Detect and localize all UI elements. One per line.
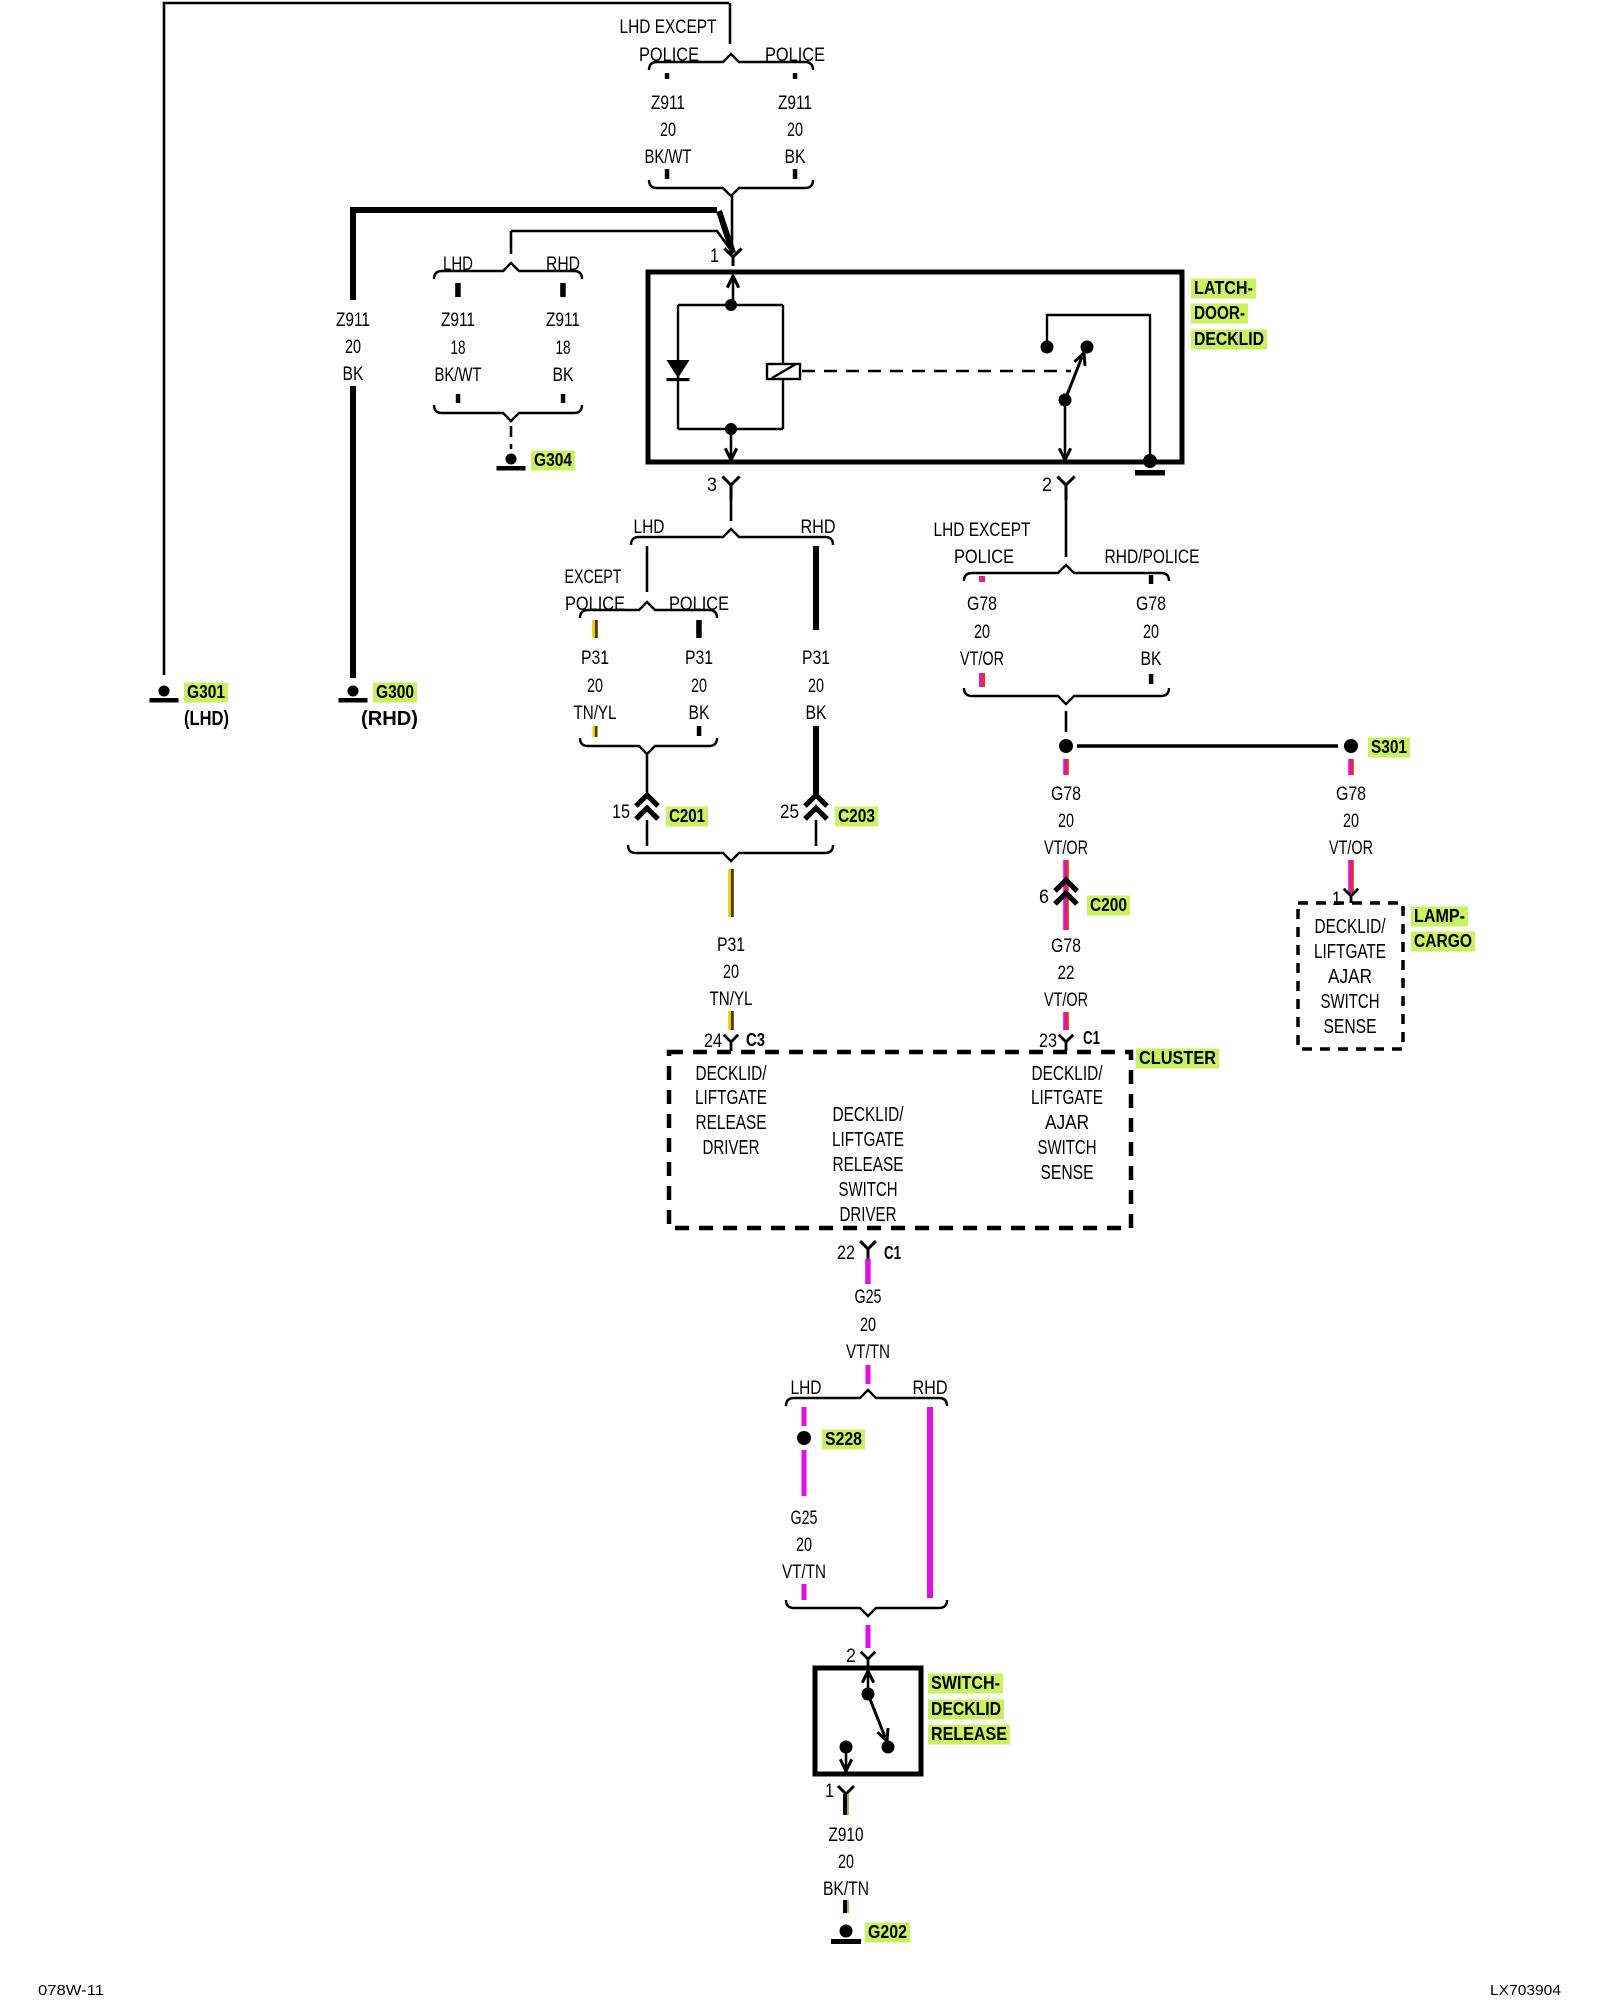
svg-text:SWITCH: SWITCH [1038,1137,1097,1159]
svg-text:LHD: LHD [634,517,665,538]
svg-text:VT/OR: VT/OR [1044,838,1088,859]
wire stub BK bottom [697,726,702,736]
svg-text:BK/WT: BK/WT [645,147,692,168]
wire LHD feed from top to ground G301 [164,3,729,675]
svg-text:DRIVER: DRIVER [840,1204,897,1226]
wire to pin 3 with arrow down [730,429,733,459]
wire LHD branch [646,546,649,592]
svg-text:LHD EXCEPT: LHD EXCEPT [934,520,1031,541]
pin 2 connector [1057,476,1074,500]
svg-text:POLICE: POLICE [669,594,729,615]
wire stub BK bottom right [1149,674,1154,684]
svg-text:G78: G78 [1051,936,1081,957]
pin 3 connector [722,476,739,500]
svg-text:15: 15 [612,802,630,823]
wire stub BK/WT bottom [665,169,670,179]
brace merge Z911-20 [649,180,813,196]
switch arm with arrow [868,1694,885,1737]
svg-text:20: 20 [1058,811,1074,832]
svg-text:DECKLID/: DECKLID/ [1315,916,1386,938]
svg-text:1: 1 [825,1781,834,1802]
junction node top [725,299,737,311]
svg-text:Z911: Z911 [651,93,685,114]
wire stub VT/TN LHD [802,1407,807,1426]
wire RHD P31 thick lower [813,726,819,798]
svg-text:LAMP-: LAMP- [1414,906,1465,926]
wire drop to Z911 split [729,3,732,44]
wire VT/OR to C200 [1063,860,1066,930]
svg-text:20: 20 [723,962,739,983]
svg-text:Z910: Z910 [829,1825,864,1846]
svg-text:RELEASE: RELEASE [931,1724,1007,1744]
svg-text:(LHD): (LHD) [184,708,229,730]
svg-text:C1: C1 [884,1243,901,1263]
pin 2 connector switch [861,1652,875,1668]
label CLUSTER [1136,1049,1219,1069]
svg-text:SWITCH: SWITCH [1321,991,1380,1013]
pin 1 connector [724,248,741,266]
connector C200 [1055,880,1077,904]
wire stub BK top [696,620,702,638]
svg-text:S228: S228 [825,1429,862,1449]
svg-text:Z911: Z911 [336,310,370,331]
wire to pin1 with arrow down [845,1747,848,1770]
wire stub BK bottom [561,394,566,403]
wire RHD P31 thick upper [813,546,819,630]
svg-text:1: 1 [1332,889,1341,910]
svg-text:(RHD): (RHD) [361,708,418,730]
svg-text:VT/OR: VT/OR [1329,838,1373,859]
svg-text:Z911: Z911 [546,310,580,331]
svg-text:LIFTGATE: LIFTGATE [695,1087,767,1109]
svg-text:20: 20 [860,1315,876,1336]
wire P31 TN/YL merged [728,869,731,917]
switch common node [1059,394,1072,407]
brace split G78 [964,565,1169,581]
brace split LHD/RHD [631,529,833,545]
svg-text:LATCH-: LATCH- [1194,278,1253,298]
svg-text:SWITCH: SWITCH [839,1179,898,1201]
svg-text:CLUSTER: CLUSTER [1139,1048,1216,1068]
svg-text:20: 20 [838,1852,854,1873]
svg-text:EXCEPT: EXCEPT [565,567,622,588]
svg-text:RELEASE: RELEASE [833,1154,904,1176]
svg-text:VT/OR: VT/OR [960,649,1004,670]
brace merge C201/C203 [628,845,833,861]
svg-text:2: 2 [846,1646,856,1667]
wire into switch with arrow up [867,1672,870,1694]
svg-text:RHD: RHD [913,1378,948,1399]
svg-text:2: 2 [1042,475,1052,496]
svg-text:G300: G300 [376,682,414,702]
label S301 [1368,738,1410,758]
svg-text:20: 20 [808,676,824,697]
wire stub VT/OR bottom left [979,673,982,687]
svg-text:3: 3 [707,475,717,496]
svg-text:SWITCH-: SWITCH- [931,1673,1000,1693]
svg-text:LIFTGATE: LIFTGATE [1031,1087,1103,1109]
brace merge G78 [964,688,1169,704]
svg-text:LHD: LHD [791,1378,822,1399]
wire stub TN/YL to C3 [728,1011,731,1030]
junction node bottom [725,423,737,435]
svg-text:20: 20 [1343,811,1359,832]
ground G300 [348,686,359,697]
wire VT/TN below S228 [802,1450,807,1496]
wire pin2 to split [1065,500,1068,557]
label C203 [835,807,878,827]
wire stub BK/WT bottom [456,394,461,403]
svg-text:TN/YL: TN/YL [574,703,617,724]
svg-text:18: 18 [451,338,466,359]
wire to S301 [1077,744,1338,748]
svg-text:C1: C1 [1083,1028,1100,1048]
svg-text:CARGO: CARGO [1414,931,1472,951]
splice S301 [1344,739,1358,753]
svg-text:G78: G78 [1136,594,1166,615]
label C200 [1087,896,1130,916]
wire RHD VT/TN long [927,1407,933,1598]
svg-text:6: 6 [1039,887,1049,908]
svg-text:25: 25 [780,802,799,823]
wire thick diagonal into pin 1 [719,211,733,253]
wire short to splice [1065,711,1068,732]
label SWITCH-DECKLID RELEASE [928,1673,1010,1745]
svg-text:24: 24 [704,1031,722,1052]
svg-text:22: 22 [1058,963,1075,984]
wire stub BK top [793,73,798,79]
switch arm [1065,357,1082,400]
wire dashed stub to G304 [510,426,513,449]
svg-text:BK/TN: BK/TN [823,1879,869,1900]
svg-text:LIFTGATE: LIFTGATE [832,1129,904,1151]
svg-text:G25: G25 [855,1287,882,1308]
wire below C201 [646,820,649,846]
label G202 [865,1923,910,1943]
wire stub BK/TN bottom [843,1900,845,1913]
wire stub TN/YL bottom [593,726,596,737]
label G301 [184,683,228,703]
wire splice down to pin 1 [731,196,734,254]
svg-text:P31: P31 [685,648,713,669]
diode D1 [667,360,690,378]
latch module box [648,272,1182,462]
svg-text:Z911: Z911 [441,310,475,331]
label G304 [531,451,575,471]
svg-text:DOOR-: DOOR- [1194,303,1245,323]
wire stub TN/YL top [592,620,595,638]
svg-text:VT/TN: VT/TN [782,1562,826,1583]
svg-text:LIFTGATE: LIFTGATE [1314,941,1386,963]
svg-text:RELEASE: RELEASE [696,1112,767,1134]
switch throw node [882,1741,895,1754]
label G300 [373,683,417,703]
svg-text:POLICE: POLICE [954,547,1014,568]
wire RHD thick feed upper [353,210,717,300]
svg-text:BK: BK [343,364,364,385]
wire to C201 [646,754,649,796]
wire down to LHD/RHD split [510,231,513,254]
svg-text:20: 20 [796,1535,812,1556]
wire inner loop [678,305,783,429]
wire VT/OR to lamp [1348,860,1351,894]
cluster module box [669,1052,1131,1228]
brace merge G25 [786,1600,947,1616]
ground G202 [840,1925,853,1938]
wire stub VT/TN [866,1365,871,1384]
svg-text:P31: P31 [581,648,609,669]
svg-text:BK: BK [785,147,806,168]
svg-text:VT/OR: VT/OR [1044,990,1088,1011]
switch feed wire [1047,315,1150,459]
svg-text:G304: G304 [534,450,572,470]
pin 1 connector switch [838,1786,854,1794]
svg-text:BK: BK [553,365,574,386]
switch top node [862,1688,875,1701]
svg-text:20: 20 [787,120,803,141]
svg-text:G301: G301 [187,682,225,702]
wire thin from G304 splice into pin 1 [511,231,733,253]
svg-text:SENSE: SENSE [1041,1162,1094,1184]
svg-text:G202: G202 [868,1922,907,1942]
wire stub BK/TN pin1 [843,1794,845,1815]
lamp cargo module box [1298,903,1403,1049]
svg-text:18: 18 [556,338,571,359]
svg-text:RHD/POLICE: RHD/POLICE [1105,547,1200,568]
svg-text:1: 1 [710,246,719,267]
label LATCH-DOOR-DECKLID [1191,278,1267,350]
svg-text:DECKLID/: DECKLID/ [696,1063,767,1085]
svg-text:C3: C3 [746,1030,765,1050]
brace split LHD/RHD [434,263,582,279]
pin 24 connector C3 [724,1035,738,1051]
label LAMP-CARGO [1411,906,1475,952]
svg-text:AJAR: AJAR [1328,966,1372,988]
svg-text:DECKLID: DECKLID [931,1699,1001,1719]
svg-text:RHD: RHD [801,517,836,538]
wire stub Z911-18 RHD [560,283,566,297]
svg-text:C200: C200 [1090,895,1127,915]
svg-text:20: 20 [660,120,676,141]
wire stub VT/OR below splice [1063,759,1066,775]
wire stub VT/TN to switch [866,1625,871,1648]
label C201 [666,807,708,827]
switch decklid release box [815,1668,921,1774]
svg-text:DECKLID/: DECKLID/ [1032,1063,1103,1085]
wire stub BK/WT top [665,73,670,79]
svg-text:23: 23 [1039,1031,1057,1052]
wire VT/TN stub below pin22 [865,1259,871,1284]
wire pin3 to split [730,500,733,521]
pin 23 connector C1 [1059,1035,1073,1051]
svg-text:20: 20 [587,676,603,697]
svg-text:20: 20 [1143,622,1159,643]
brace split LHD/RHD G25 [786,1390,947,1406]
svg-text:LX703904: LX703904 [1490,1982,1561,1999]
splice node [1059,739,1073,753]
svg-text:20: 20 [345,337,361,358]
ground G301 [159,686,170,697]
svg-text:LHD EXCEPT: LHD EXCEPT [620,17,717,38]
brace split Z911-20 [649,54,813,70]
svg-text:DRIVER: DRIVER [703,1137,760,1159]
brace split police [580,602,717,618]
svg-text:POLICE: POLICE [565,594,625,615]
svg-text:S301: S301 [1371,737,1407,757]
svg-text:SENSE: SENSE [1324,1016,1377,1038]
connector C203 [805,795,827,819]
label S228 [822,1430,865,1450]
svg-text:DECKLID: DECKLID [1194,329,1264,349]
wire stub VT/OR top left [979,576,982,582]
svg-text:078W-11: 078W-11 [38,1982,104,1999]
svg-text:G78: G78 [1336,784,1366,805]
svg-text:BK: BK [806,703,827,724]
svg-text:VT/TN: VT/TN [846,1342,890,1363]
wire to pin 2 with arrow down [1064,400,1067,459]
ground internal latch [1143,454,1157,468]
brace merge to G304 [434,405,582,421]
wire stub VT/OR to C1 [1063,1012,1066,1030]
svg-text:20: 20 [691,676,707,697]
relay solenoid coil [767,364,800,379]
svg-text:22: 22 [837,1243,855,1264]
wire RHD thick feed lower [350,386,356,678]
svg-text:P31: P31 [802,648,830,669]
svg-text:G78: G78 [1051,784,1081,805]
wire stub VT/OR below S301 [1348,759,1351,775]
dashed actuator link [802,370,1071,373]
wire stub BK top right [1149,575,1154,584]
svg-text:C203: C203 [838,806,875,826]
svg-text:P31: P31 [717,935,745,956]
wire stub BK bottom [793,169,798,179]
pin 22 connector C1 [860,1241,876,1259]
contact node fixed [1041,341,1054,354]
svg-text:BK: BK [689,703,710,724]
ground G304 [506,454,517,465]
svg-text:BK/WT: BK/WT [435,365,482,386]
svg-text:C201: C201 [669,806,705,826]
svg-text:Z911: Z911 [778,93,812,114]
pin 1 connector lamp [1344,889,1358,903]
contact node throw [1081,341,1094,354]
switch common node [840,1741,853,1754]
svg-text:TN/YL: TN/YL [710,989,753,1010]
svg-text:DECKLID/: DECKLID/ [833,1104,904,1126]
wire relay feed with arrow up [732,277,735,305]
svg-text:20: 20 [974,622,990,643]
splice S228 [797,1431,811,1445]
wire stub Z911-18 LHD [455,283,461,297]
connector C201 [636,795,658,819]
wire below C203 [815,820,818,846]
svg-text:AJAR: AJAR [1045,1112,1089,1134]
svg-text:G25: G25 [791,1508,818,1529]
wire stub VT/TN bottom [802,1584,807,1600]
svg-text:G78: G78 [967,594,997,615]
brace merge police [580,738,717,754]
svg-text:BK: BK [1141,649,1162,670]
